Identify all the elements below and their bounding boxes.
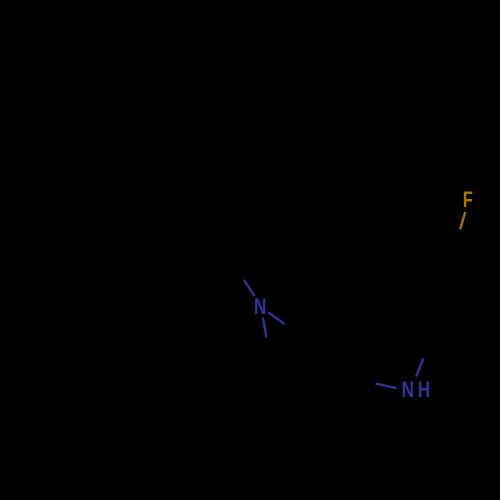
bond N-CH2 down (nitrogen half, wire) bbox=[263, 318, 267, 338]
bond N-CH2 upper-left (nitrogen half, wire) bbox=[244, 280, 255, 296]
bond NH-C7a upper-right (nitrogen half, wire) bbox=[416, 358, 423, 376]
bond NH-C2 left (nitrogen half, wire) bbox=[376, 384, 397, 389]
svg-text:N: N bbox=[254, 295, 266, 320]
svg-text:N: N bbox=[402, 378, 414, 403]
bond N-C lower-right (nitrogen half, wire) bbox=[268, 312, 284, 324]
svg-text:H: H bbox=[418, 378, 430, 403]
bond F-C (fluorine half, wire) bbox=[460, 212, 465, 229]
svg-text:F: F bbox=[463, 188, 473, 213]
